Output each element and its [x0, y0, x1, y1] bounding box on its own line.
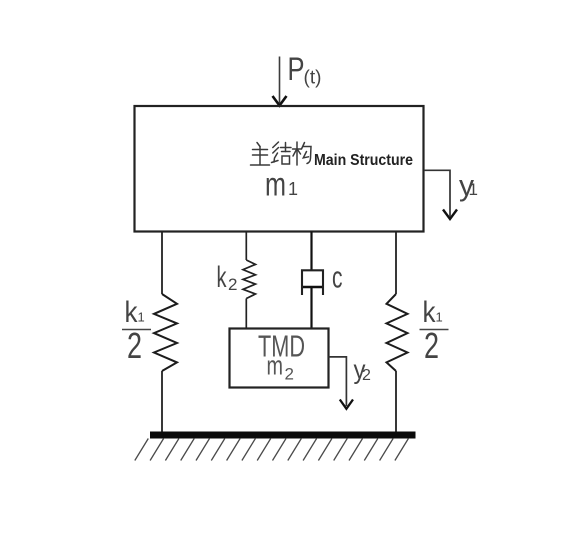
svg-text:k: k: [217, 261, 228, 294]
ground bar: [150, 432, 416, 439]
wire right spring bottom: [395, 371, 397, 433]
wire left spring top: [161, 232, 163, 295]
主: [257, 143, 260, 147]
svg-text:1: 1: [469, 180, 478, 199]
label k1/2 right: [420, 296, 449, 366]
mass m1 main structure box: [135, 106, 424, 232]
force arrow P(t): [273, 57, 287, 106]
label y1: [459, 170, 478, 203]
wire damper bottom rod: [310, 287, 312, 329]
结 right part (吉): [281, 147, 292, 149]
svg-text:2: 2: [424, 325, 439, 366]
damper c cylinder: [302, 270, 323, 295]
结 left radical: [273, 142, 279, 148]
svg-text:P: P: [288, 51, 305, 87]
label m1: [265, 166, 298, 203]
spring k2: [243, 260, 256, 299]
label k2: [217, 261, 238, 294]
svg-text:1: 1: [138, 310, 145, 325]
label m2: [267, 351, 294, 384]
svg-text:m: m: [267, 351, 284, 381]
svg-text:2: 2: [228, 275, 237, 294]
wire spring k2 bottom: [245, 299, 247, 330]
svg-text:2: 2: [127, 325, 142, 366]
label 主结构 (drawn strokes): [251, 142, 312, 165]
wire spring k2 top: [245, 232, 247, 261]
svg-text:Main Structure: Main Structure: [314, 152, 413, 169]
ground hatching: [135, 439, 409, 461]
svg-text:2: 2: [362, 367, 371, 384]
label k1/2 left: [122, 296, 151, 366]
wire right spring top: [395, 232, 397, 295]
wire left spring bottom: [161, 371, 163, 433]
wire damper top rod: [310, 232, 312, 271]
构 left radical (木): [293, 148, 302, 150]
displacement arrow y1: [424, 170, 457, 219]
svg-text:m: m: [265, 166, 286, 203]
构 right part (勾): [302, 143, 305, 150]
spring k1/2 right: [387, 294, 408, 371]
svg-text:1: 1: [288, 179, 298, 199]
svg-text:(t): (t): [304, 68, 322, 89]
svg-text:c: c: [332, 260, 343, 295]
label y2: [354, 355, 372, 385]
svg-text:2: 2: [285, 365, 294, 384]
displacement arrow y2: [329, 357, 354, 409]
svg-text:1: 1: [436, 310, 443, 325]
mass m2 TMD box: [230, 329, 329, 388]
label P(t): [288, 51, 322, 89]
damper c piston: [303, 286, 322, 289]
spring k1/2 left: [154, 294, 177, 371]
